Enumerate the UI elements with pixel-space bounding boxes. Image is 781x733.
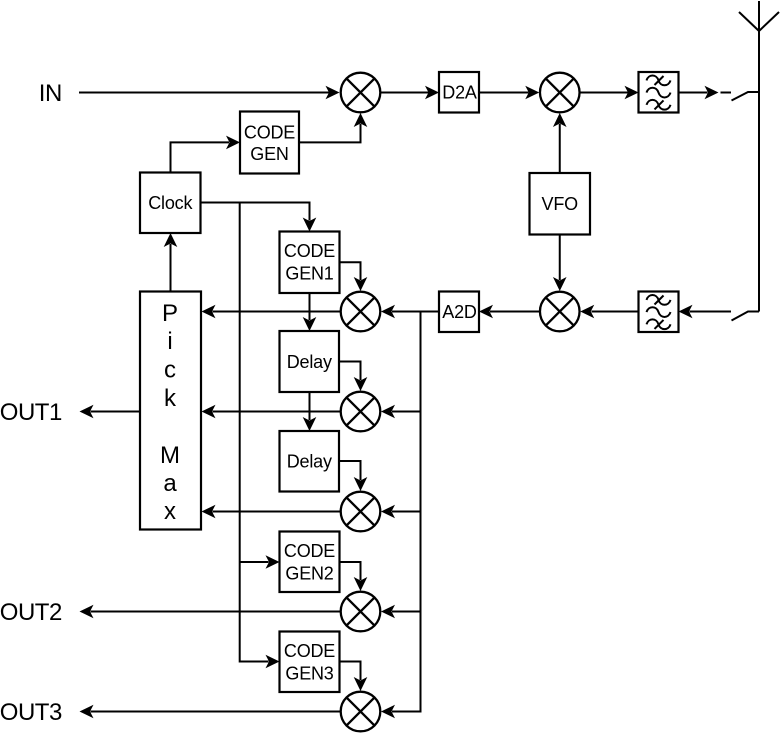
svg-text:M: M: [160, 442, 180, 469]
mixer M2: [540, 73, 580, 113]
A2D box U2: [439, 292, 479, 333]
CODE GEN1 box: [280, 232, 340, 294]
wire Clock to CODE GEN: [171, 136, 241, 173]
wire M3 to A2D: [479, 305, 539, 319]
svg-text:x: x: [164, 498, 176, 525]
wire D2A to mixer M2: [479, 86, 539, 100]
TX bandpass filter: [639, 72, 679, 113]
wire Delay2 to MR3: [339, 461, 367, 491]
svg-text:A2D: A2D: [442, 302, 477, 322]
svg-text:Clock: Clock: [148, 193, 193, 213]
svg-text:GEN3: GEN3: [285, 663, 333, 683]
wire MR2 to Pick Max: [202, 405, 341, 419]
Clock box: [140, 173, 201, 234]
svg-text:CODE: CODE: [284, 541, 335, 561]
Pick Max box: [140, 292, 201, 530]
wire M1 to D2A: [381, 86, 439, 100]
mixer MR5: [341, 692, 381, 732]
svg-text:VFO: VFO: [542, 194, 579, 214]
bus wire A2D branch down to MR5: [381, 312, 421, 719]
RX antenna switch: [732, 312, 760, 321]
svg-text:Delay: Delay: [287, 352, 332, 372]
wire MR1 to Pick Max: [202, 305, 341, 319]
mixer MR4: [341, 592, 381, 632]
svg-text:CODE: CODE: [244, 123, 295, 143]
antenna: [739, 1, 779, 312]
wire CODE GEN1 to Delay1: [303, 293, 317, 331]
wire bus to MR2: [381, 405, 421, 419]
svg-text:GEN1: GEN1: [285, 264, 333, 284]
wire bus to MR4: [381, 605, 421, 619]
svg-text:P: P: [162, 300, 178, 327]
Delay1 box: [280, 331, 340, 392]
Delay2 box: [280, 431, 340, 492]
wire MR3 to Pick Max: [202, 505, 341, 519]
wire Delay1 to Delay2: [303, 392, 317, 431]
svg-text:D2A: D2A: [442, 83, 477, 103]
mixer MR2: [341, 392, 381, 432]
wire VFO to M2: [553, 113, 567, 173]
wire VFO to M3: [553, 235, 567, 292]
svg-text:CODE: CODE: [284, 641, 335, 661]
wire Clock to CODE GEN1: [201, 203, 317, 232]
svg-text:a: a: [163, 470, 177, 497]
VFO box: [530, 173, 591, 235]
wire Pick Max to Clock: [164, 233, 178, 292]
CODE GEN3 box: [280, 632, 340, 693]
svg-text:OUT2: OUT2: [0, 599, 62, 626]
svg-text:c: c: [164, 357, 176, 384]
RX bandpass filter: [639, 292, 679, 333]
svg-text:IN: IN: [39, 80, 62, 107]
mixer M1: [341, 73, 381, 113]
svg-text:OUT3: OUT3: [0, 699, 62, 726]
svg-text:k: k: [164, 385, 177, 412]
mixer MR1: [341, 292, 381, 332]
svg-text:GEN2: GEN2: [285, 563, 333, 583]
svg-text:CODE: CODE: [284, 241, 335, 261]
D2A box U1: [439, 72, 479, 113]
wire MR4 to OUT2: [80, 605, 341, 619]
wire Delay1 to MR2: [339, 362, 367, 392]
svg-text:Delay: Delay: [287, 452, 332, 472]
TX antenna switch: [732, 92, 760, 101]
wire CODE GEN1 to MR1: [340, 262, 368, 291]
wire M2 to TX filter: [580, 86, 638, 100]
wire bus to MR3: [381, 505, 421, 519]
wire CODE GEN2 to MR4: [340, 562, 368, 591]
wire MR5 to OUT3: [80, 705, 341, 719]
svg-text:GEN: GEN: [250, 144, 288, 164]
wire CODE GEN3 to MR5: [340, 662, 368, 692]
wire bus to CODE GEN2: [240, 555, 280, 569]
wire Pick Max to OUT1: [80, 405, 141, 419]
CODE GEN2 box: [280, 532, 340, 593]
mixer M3: [540, 292, 580, 332]
wire RX filter to M3: [580, 305, 638, 319]
wire TX filter to antenna switch: [679, 86, 732, 100]
wire switch to RX filter: [679, 305, 732, 319]
mixer MR3: [341, 492, 381, 532]
wire CODE GEN to M1: [299, 113, 367, 142]
CODE GEN box: [240, 112, 299, 174]
bus wire Clock branch down to CODE GEN3: [240, 203, 280, 669]
svg-text:OUT1: OUT1: [0, 399, 62, 426]
wire IN to mixer M1: [79, 86, 340, 100]
wire A2D to MR1: [381, 305, 439, 319]
svg-text:i: i: [167, 328, 172, 355]
